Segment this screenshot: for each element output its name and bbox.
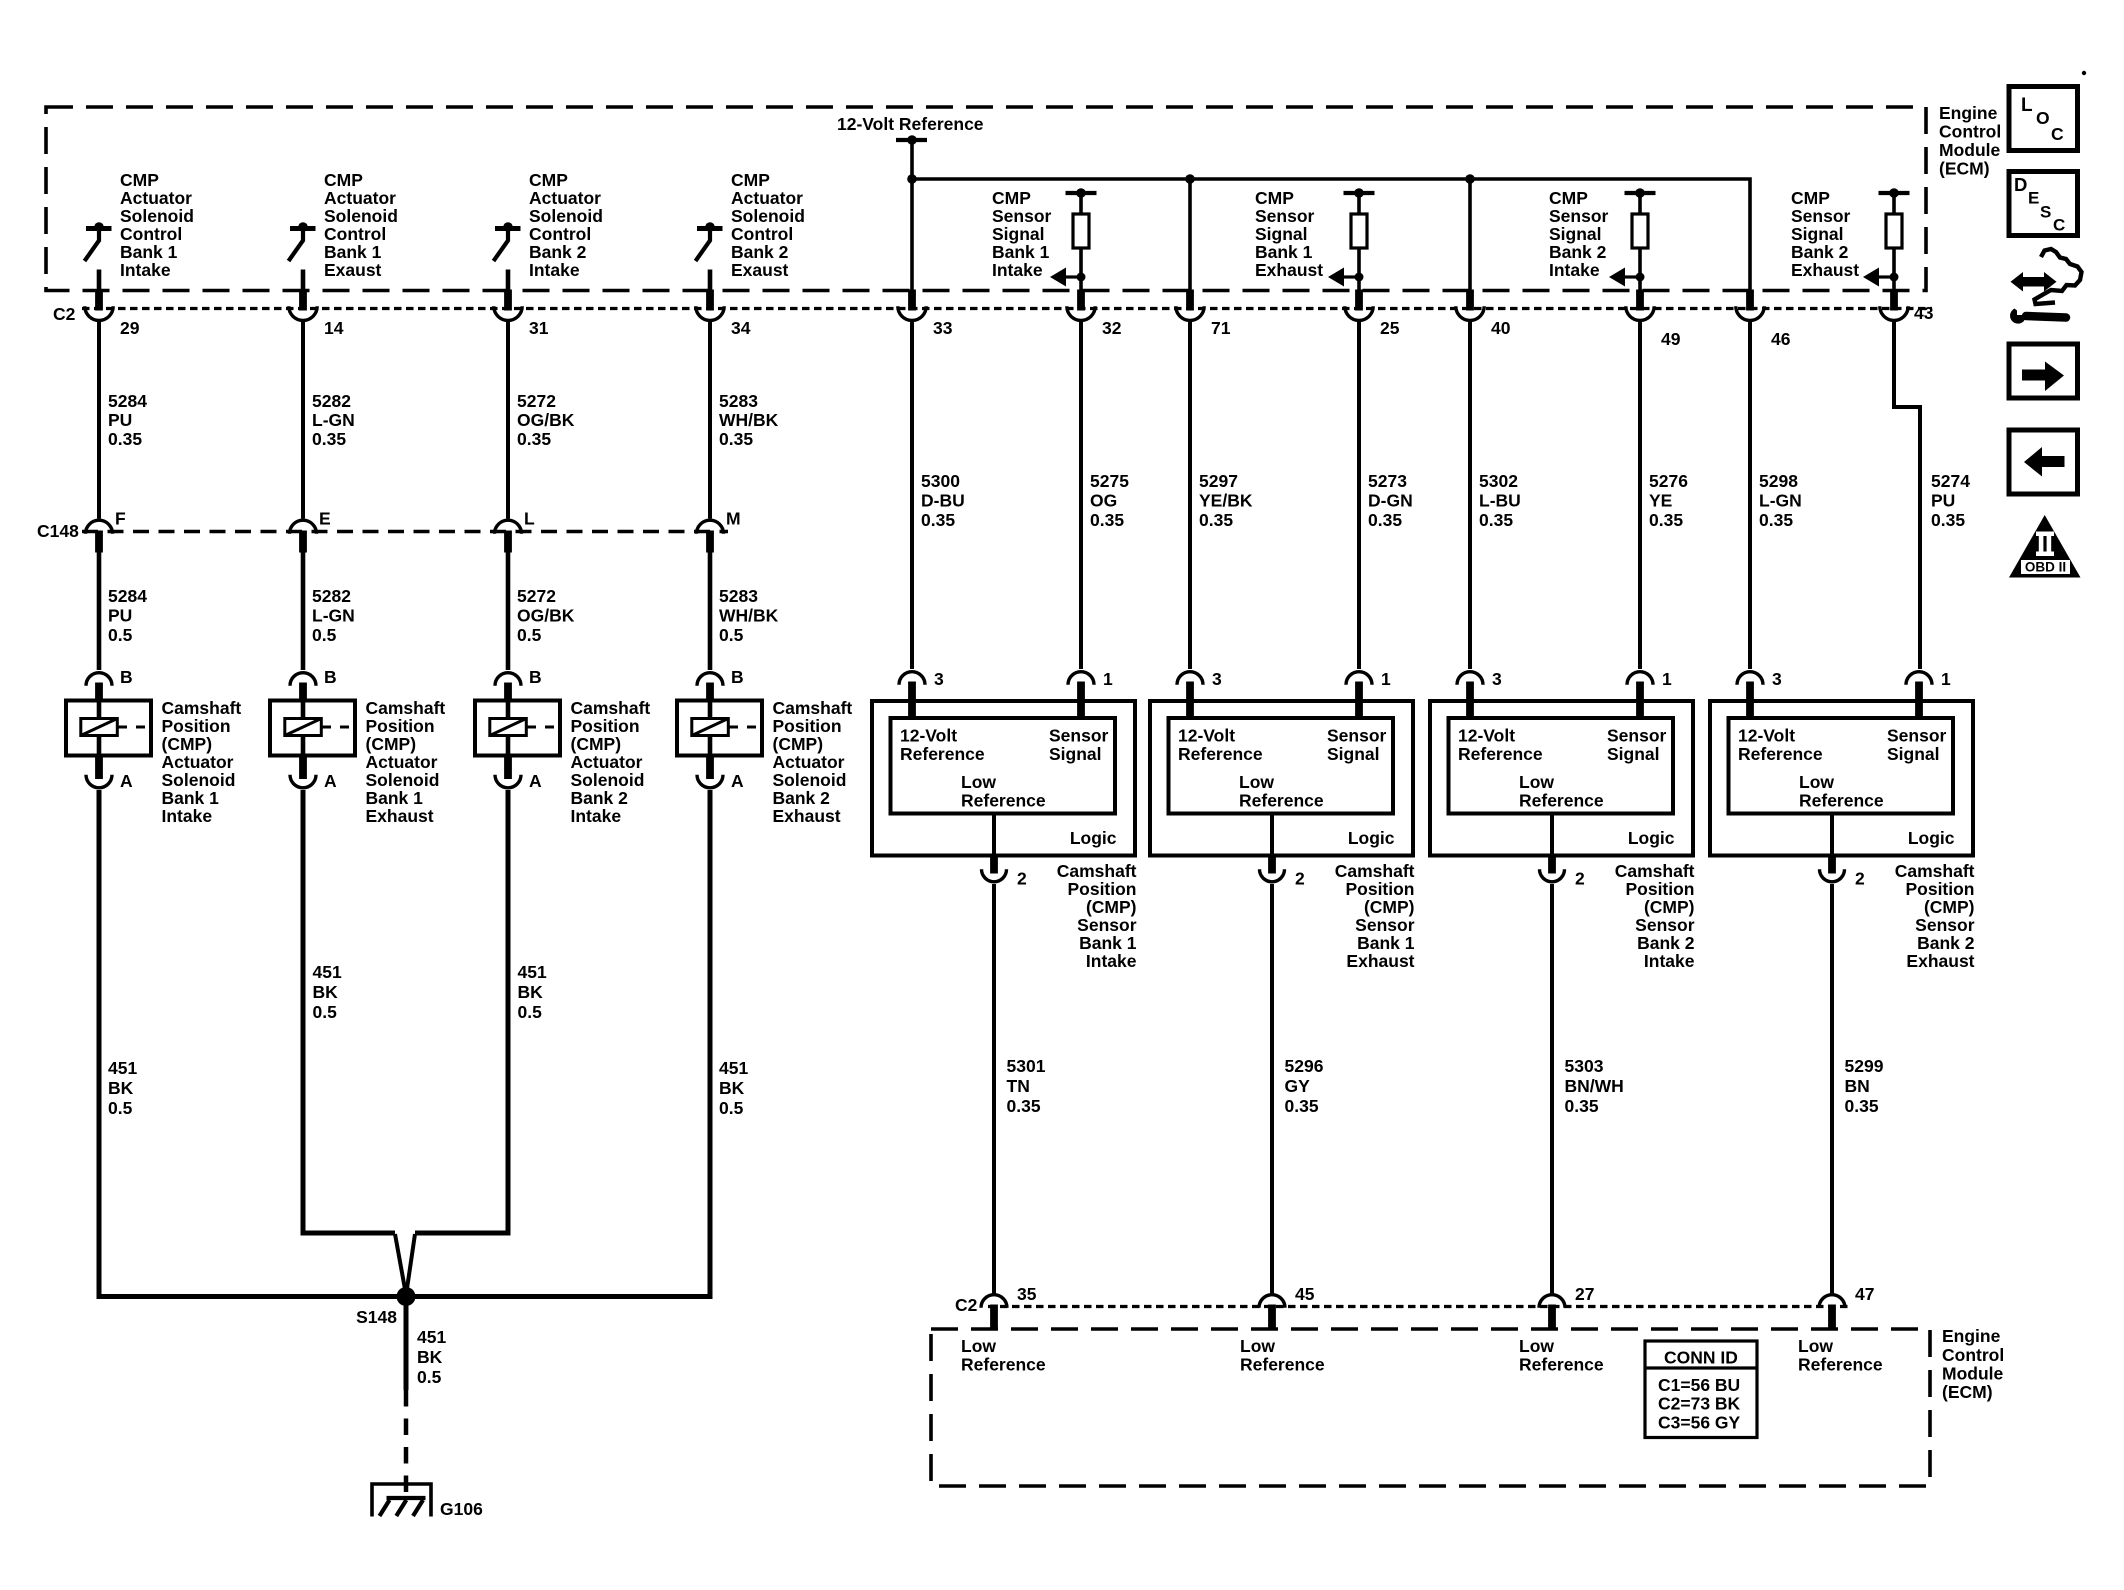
svg-text:1: 1	[1381, 669, 1391, 689]
svg-text:5272: 5272	[517, 586, 556, 606]
connector pin 3 sensor Bank 1 Exhaust	[1177, 669, 1222, 719]
connector C148 pin F	[86, 509, 127, 553]
connector pin 1 sensor Bank 2 Intake	[1627, 669, 1672, 719]
svg-text:Logic: Logic	[1628, 828, 1675, 848]
svg-text:A: A	[731, 771, 744, 791]
svg-text:33: 33	[933, 318, 953, 338]
svg-text:34: 34	[731, 318, 751, 338]
arrow sensor signal tap Bank 1 Exhaust	[1328, 268, 1364, 287]
svg-text:0.35: 0.35	[1285, 1096, 1319, 1116]
svg-text:CONN ID: CONN ID	[1664, 1348, 1738, 1368]
svg-text:2: 2	[1575, 869, 1585, 889]
svg-text:CMP: CMP	[731, 170, 770, 190]
label Engine Control Module (ECM) bottom right	[1942, 1326, 2004, 1402]
connector C2 pin 49	[1626, 290, 1681, 350]
svg-text:Actuator: Actuator	[324, 188, 396, 208]
resistor CMP sensor pull-up Bank 1 Intake	[1066, 188, 1097, 277]
svg-text:0.35: 0.35	[517, 429, 551, 449]
svg-text:0.35: 0.35	[719, 429, 753, 449]
wire 451 BK 0.5 from solenoid 4 pin A	[710, 790, 748, 1294]
svg-text:OG/BK: OG/BK	[517, 410, 575, 430]
arrow sensor signal tap Bank 2 Intake	[1609, 268, 1645, 287]
svg-text:Module: Module	[1939, 140, 2001, 160]
svg-text:5274: 5274	[1931, 471, 1970, 491]
svg-text:Low: Low	[1519, 1336, 1554, 1356]
svg-text:Control: Control	[324, 224, 386, 244]
wire 5301 TN 0.35 (sensor pin 2 to C2)	[994, 884, 1046, 1294]
ECM module outline (bottom)	[931, 1329, 1930, 1486]
svg-text:D-GN: D-GN	[1368, 491, 1413, 511]
connector pin A solenoid Bank 1 Intake	[86, 755, 133, 792]
solenoid driver CMP Actuator Solenoid Control Bank 2 Exaust	[696, 170, 805, 280]
node Low Reference	[1519, 1336, 1604, 1375]
svg-text:14: 14	[324, 318, 344, 338]
svg-text:BK: BK	[108, 1078, 134, 1098]
svg-text:Bank 1: Bank 1	[120, 242, 178, 262]
svg-text:5302: 5302	[1479, 471, 1518, 491]
label CMP Sensor Signal Bank 1 Intake	[992, 188, 1052, 280]
svg-text:5301: 5301	[1007, 1056, 1046, 1076]
sensor Camshaft Position (CMP) Sensor Bank 1 Intake	[872, 701, 1137, 971]
svg-text:5276: 5276	[1649, 471, 1688, 491]
svg-text:0.5: 0.5	[313, 1002, 338, 1022]
svg-text:Signal: Signal	[1607, 744, 1660, 764]
connector C148 line	[82, 530, 728, 533]
svg-text:YE/BK: YE/BK	[1199, 491, 1253, 511]
svg-text:BN/WH: BN/WH	[1565, 1076, 1624, 1096]
connector pin 2 sensor Bank 2 Intake	[1540, 854, 1586, 889]
connector pin B solenoid Bank 1 Intake	[86, 667, 133, 701]
connector pin 3 sensor Bank 2 Intake	[1457, 669, 1502, 719]
svg-text:0.5: 0.5	[417, 1367, 442, 1387]
wire driver output Bank 2 Intake to pin	[506, 270, 511, 291]
svg-text:0.5: 0.5	[312, 625, 337, 645]
svg-text:Bank 1: Bank 1	[162, 788, 220, 808]
svg-text:Logic: Logic	[1908, 828, 1955, 848]
svg-text:0.35: 0.35	[921, 510, 955, 530]
svg-text:Bank 2: Bank 2	[1637, 933, 1695, 953]
svg-text:Position: Position	[1905, 879, 1974, 899]
wire V-drop to splice	[395, 1234, 415, 1292]
svg-text:2: 2	[1017, 869, 1027, 889]
svg-text:Position: Position	[773, 716, 842, 736]
connector pin A solenoid Bank 2 Intake	[495, 755, 542, 792]
svg-text:5303: 5303	[1565, 1056, 1604, 1076]
wire 5284 PU 0.5 (C148 to solenoid pin B)	[99, 553, 147, 671]
svg-text:5284: 5284	[108, 586, 147, 606]
svg-text:Solenoid: Solenoid	[529, 206, 603, 226]
svg-text:CMP: CMP	[529, 170, 568, 190]
svg-text:YE: YE	[1649, 491, 1672, 511]
svg-text:71: 71	[1211, 318, 1231, 338]
svg-text:Position: Position	[571, 716, 640, 736]
svg-text:CMP: CMP	[120, 170, 159, 190]
wire ground run horizontal	[97, 1294, 713, 1299]
wire 5282 L-GN 0.35 (C2 pin 14 to C148)	[303, 322, 355, 519]
connector pin 2 sensor Bank 2 Exhaust	[1820, 854, 1866, 889]
svg-text:451: 451	[108, 1058, 137, 1078]
svg-text:BN: BN	[1845, 1076, 1870, 1096]
table CONN ID	[1645, 1341, 1757, 1438]
svg-text:Actuator: Actuator	[162, 752, 234, 772]
svg-text:CMP: CMP	[992, 188, 1031, 208]
svg-text:L-GN: L-GN	[1759, 491, 1802, 511]
svg-text:0.5: 0.5	[517, 625, 542, 645]
svg-text:5275: 5275	[1090, 471, 1129, 491]
svg-text:12-Volt: 12-Volt	[1178, 726, 1235, 746]
svg-text:29: 29	[120, 318, 140, 338]
svg-text:5273: 5273	[1368, 471, 1407, 491]
connector pin B solenoid Bank 1 Exhaust	[290, 667, 337, 701]
svg-text:GY: GY	[1285, 1076, 1311, 1096]
junction bus / pin 71 wire	[1185, 174, 1195, 184]
icon back arrow button	[2009, 430, 2078, 494]
svg-text:12-Volt Reference: 12-Volt Reference	[837, 114, 984, 134]
svg-text:Control: Control	[529, 224, 591, 244]
svg-text:45: 45	[1295, 1284, 1315, 1304]
svg-text:Reference: Reference	[1519, 791, 1604, 811]
svg-text:0.5: 0.5	[719, 1098, 744, 1118]
svg-text:Bank 1: Bank 1	[1079, 933, 1137, 953]
icon LOC button	[2009, 87, 2078, 151]
connector C2 (bottom) line	[988, 1305, 1850, 1308]
svg-text:12-Volt: 12-Volt	[1738, 726, 1795, 746]
svg-text:Signal: Signal	[992, 224, 1045, 244]
svg-text:E: E	[319, 509, 331, 529]
connector C148 pin E	[290, 509, 331, 553]
svg-text:0.35: 0.35	[1649, 510, 1683, 530]
svg-text:(CMP): (CMP)	[571, 734, 622, 754]
mark speck	[2082, 71, 2086, 75]
svg-text:46: 46	[1771, 329, 1791, 349]
svg-text:3: 3	[1212, 669, 1222, 689]
node 12-Volt Reference terminal	[837, 114, 984, 145]
connector C2 pin 32	[1067, 290, 1122, 339]
ground G106	[372, 1484, 483, 1519]
svg-text:Camshaft: Camshaft	[162, 698, 242, 718]
svg-text:0.5: 0.5	[108, 625, 133, 645]
svg-text:3: 3	[1492, 669, 1502, 689]
svg-text:1: 1	[1941, 669, 1951, 689]
svg-text:0.5: 0.5	[719, 625, 744, 645]
label CMP Sensor Signal Bank 1 Exhaust	[1255, 188, 1323, 280]
svg-text:Exhaust: Exhaust	[1255, 260, 1323, 280]
connector C2 pin 25	[1345, 290, 1400, 339]
wire 5273 D-GN 0.35	[1359, 322, 1413, 670]
svg-text:3: 3	[934, 669, 944, 689]
junction 12V bus at pin 33 column	[907, 174, 917, 184]
svg-text:O: O	[2036, 108, 2050, 128]
svg-text:OG: OG	[1090, 491, 1117, 511]
svg-text:A: A	[120, 771, 133, 791]
svg-text:Bank 2: Bank 2	[571, 788, 629, 808]
splice S148	[356, 1287, 415, 1327]
svg-text:Exhaust: Exhaust	[1346, 951, 1414, 971]
svg-text:0.35: 0.35	[312, 429, 346, 449]
svg-text:0.35: 0.35	[108, 429, 142, 449]
wire 5272 OG/BK 0.5 (C148 to solenoid pin B)	[508, 553, 575, 671]
wire 5274 PU 0.35 (pin 43 with jog)	[1894, 322, 1970, 670]
svg-text:5272: 5272	[517, 391, 556, 411]
wire resistor to pin stub Bank 2 Intake	[1638, 277, 1642, 291]
svg-text:5283: 5283	[719, 391, 758, 411]
ECM module outline (top)	[46, 107, 1926, 291]
label connector C2 (bottom)	[955, 1295, 978, 1315]
svg-text:Logic: Logic	[1070, 828, 1117, 848]
icon hand with double arrow and wrench	[2010, 249, 2081, 324]
svg-text:D-BU: D-BU	[921, 491, 965, 511]
svg-text:Exaust: Exaust	[731, 260, 789, 280]
svg-text:L-GN: L-GN	[312, 410, 355, 430]
svg-text:B: B	[120, 667, 133, 687]
connector C2 pin 33	[898, 290, 953, 339]
svg-text:Actuator: Actuator	[366, 752, 438, 772]
resistor CMP sensor pull-up Bank 2 Intake	[1625, 188, 1656, 277]
svg-text:27: 27	[1575, 1284, 1594, 1304]
icon DESC button	[2009, 172, 2078, 236]
arrow sensor signal tap Bank 2 Exhaust	[1863, 268, 1899, 287]
connector pin 3 sensor Bank 2 Exhaust	[1737, 669, 1782, 719]
svg-text:Reference: Reference	[1519, 1355, 1604, 1375]
svg-text:(CMP): (CMP)	[1644, 897, 1695, 917]
svg-text:Low: Low	[1239, 772, 1274, 792]
svg-text:Sensor: Sensor	[1549, 206, 1609, 226]
wire 5276 YE 0.35	[1640, 322, 1688, 670]
connector pin A solenoid Bank 1 Exhaust	[290, 755, 337, 792]
connector pin 1 sensor Bank 1 Intake	[1068, 669, 1113, 719]
connector pin 2 sensor Bank 1 Intake	[982, 854, 1028, 889]
connector C148 pin L	[495, 509, 536, 553]
svg-text:47: 47	[1855, 1284, 1874, 1304]
svg-text:5282: 5282	[312, 391, 351, 411]
svg-text:451: 451	[417, 1327, 446, 1347]
svg-text:Solenoid: Solenoid	[773, 770, 847, 790]
svg-text:Bank 1: Bank 1	[1357, 933, 1415, 953]
svg-text:1: 1	[1662, 669, 1672, 689]
svg-text:Bank 2: Bank 2	[1791, 242, 1849, 262]
svg-text:(CMP): (CMP)	[1364, 897, 1415, 917]
svg-text:Position: Position	[1345, 879, 1414, 899]
svg-text:CMP: CMP	[1549, 188, 1588, 208]
wire driver output Bank 1 Intake to pin	[97, 270, 102, 291]
svg-text:32: 32	[1102, 318, 1122, 338]
svg-text:35: 35	[1017, 1284, 1037, 1304]
svg-text:Actuator: Actuator	[731, 188, 803, 208]
svg-text:BK: BK	[719, 1078, 745, 1098]
connector pin 1 sensor Bank 1 Exhaust	[1346, 669, 1391, 719]
svg-text:Sensor: Sensor	[992, 206, 1052, 226]
svg-text:Bank 1: Bank 1	[324, 242, 382, 262]
svg-text:Camshaft: Camshaft	[366, 698, 446, 718]
svg-text:Bank 2: Bank 2	[1917, 933, 1975, 953]
svg-text:Low: Low	[1798, 1336, 1833, 1356]
svg-text:Actuator: Actuator	[571, 752, 643, 772]
svg-text:(ECM): (ECM)	[1939, 159, 1990, 179]
wire 451 BK 0.5 from solenoid 2 pin A	[303, 790, 342, 1236]
svg-text:PU: PU	[108, 606, 132, 626]
svg-text:PU: PU	[1931, 491, 1955, 511]
svg-text:43: 43	[1914, 303, 1934, 323]
connector C2 pin 34	[696, 290, 751, 339]
svg-text:Control: Control	[1942, 1345, 2004, 1365]
resistor CMP sensor pull-up Bank 1 Exhaust	[1344, 188, 1375, 277]
svg-text:Exhaust: Exhaust	[1906, 951, 1974, 971]
wire junction bar solenoids 2+3	[301, 1231, 511, 1236]
svg-text:S: S	[2040, 203, 2051, 222]
svg-text:Signal: Signal	[1549, 224, 1602, 244]
wire 5303 BN/WH 0.35 (sensor pin 2 to C2)	[1552, 884, 1624, 1294]
svg-text:0.5: 0.5	[518, 1002, 543, 1022]
svg-text:OBD II: OBD II	[2025, 560, 2066, 575]
sensor Camshaft Position (CMP) Sensor Bank 1 Exhaust	[1150, 701, 1415, 971]
svg-text:Reference: Reference	[961, 1355, 1046, 1375]
wire 12-volt reference bus	[912, 179, 1750, 291]
svg-text:Sensor: Sensor	[1887, 726, 1947, 746]
svg-text:Bank 2: Bank 2	[731, 242, 789, 262]
svg-text:WH/BK: WH/BK	[719, 410, 779, 430]
svg-text:Bank 2: Bank 2	[529, 242, 587, 262]
svg-text:Low: Low	[961, 772, 996, 792]
svg-text:D: D	[2014, 174, 2027, 195]
svg-text:Camshaft: Camshaft	[1335, 861, 1415, 881]
svg-text:Signal: Signal	[1255, 224, 1308, 244]
svg-text:(CMP): (CMP)	[162, 734, 213, 754]
solenoid Camshaft Position (CMP) Actuator Solenoid Bank 2 Exhaust	[677, 698, 852, 826]
svg-text:Intake: Intake	[1644, 951, 1695, 971]
svg-text:BK: BK	[417, 1347, 443, 1367]
svg-text:Solenoid: Solenoid	[571, 770, 645, 790]
svg-text:Control: Control	[120, 224, 182, 244]
svg-text:3: 3	[1772, 669, 1782, 689]
svg-text:(CMP): (CMP)	[366, 734, 417, 754]
svg-text:Low: Low	[1519, 772, 1554, 792]
svg-text:Reference: Reference	[1798, 1355, 1883, 1375]
svg-text:Reference: Reference	[1178, 744, 1263, 764]
svg-text:C148: C148	[37, 521, 79, 541]
svg-text:Reference: Reference	[900, 744, 985, 764]
svg-text:0.35: 0.35	[1007, 1096, 1041, 1116]
svg-text:PU: PU	[108, 410, 132, 430]
svg-text:Camshaft: Camshaft	[571, 698, 651, 718]
node Low Reference	[961, 1336, 1046, 1375]
svg-text:5298: 5298	[1759, 471, 1798, 491]
connector pin A solenoid Bank 2 Exhaust	[697, 755, 744, 792]
svg-text:0.35: 0.35	[1479, 510, 1513, 530]
svg-text:Exhaust: Exhaust	[366, 806, 434, 826]
svg-text:5283: 5283	[719, 586, 758, 606]
svg-text:Camshaft: Camshaft	[1057, 861, 1137, 881]
svg-text:0.5: 0.5	[108, 1098, 133, 1118]
svg-text:Signal: Signal	[1049, 744, 1102, 764]
svg-text:A: A	[324, 771, 337, 791]
svg-text:CMP: CMP	[1255, 188, 1294, 208]
connector pin 1 sensor Bank 2 Exhaust	[1906, 669, 1951, 719]
svg-text:12-Volt: 12-Volt	[1458, 726, 1515, 746]
svg-text:F: F	[115, 509, 126, 529]
svg-text:Intake: Intake	[120, 260, 171, 280]
svg-text:0.35: 0.35	[1368, 510, 1402, 530]
connector C2 pin 47	[1819, 1284, 1874, 1330]
solenoid Camshaft Position (CMP) Actuator Solenoid Bank 2 Intake	[475, 698, 650, 826]
svg-text:Engine: Engine	[1939, 103, 1998, 123]
svg-text:B: B	[529, 667, 542, 687]
svg-text:Sensor: Sensor	[1791, 206, 1851, 226]
svg-text:BK: BK	[313, 982, 339, 1002]
wire 5297 YE/BK 0.35	[1190, 322, 1253, 670]
wire 5275 OG 0.35	[1081, 322, 1129, 670]
wire resistor to pin stub Bank 2 Exhaust	[1892, 277, 1896, 291]
svg-text:0.35: 0.35	[1931, 510, 1965, 530]
svg-text:C3=56 GY: C3=56 GY	[1658, 1413, 1741, 1433]
svg-text:Bank 1: Bank 1	[992, 242, 1050, 262]
svg-text:Bank 2: Bank 2	[773, 788, 831, 808]
connector C2 (top) line	[82, 307, 1932, 310]
svg-text:Exaust: Exaust	[324, 260, 382, 280]
svg-text:L: L	[524, 509, 535, 529]
sensor Camshaft Position (CMP) Sensor Bank 2 Intake	[1430, 701, 1695, 971]
svg-text:Exhaust: Exhaust	[1791, 260, 1859, 280]
svg-text:C2: C2	[53, 304, 76, 324]
svg-text:G106: G106	[440, 1499, 483, 1519]
wire 5282 L-GN 0.5 (C148 to solenoid pin B)	[303, 553, 355, 671]
svg-text:5282: 5282	[312, 586, 351, 606]
svg-text:C1=56 BU: C1=56 BU	[1658, 1375, 1740, 1395]
svg-text:Bank 1: Bank 1	[366, 788, 424, 808]
svg-text:BK: BK	[518, 982, 544, 1002]
svg-text:(CMP): (CMP)	[1086, 897, 1137, 917]
wire 5298 L-GN 0.35	[1750, 322, 1802, 670]
svg-text:Logic: Logic	[1348, 828, 1395, 848]
svg-text:Intake: Intake	[992, 260, 1043, 280]
connector pin B solenoid Bank 2 Exhaust	[697, 667, 744, 701]
svg-text:0.35: 0.35	[1845, 1096, 1879, 1116]
svg-text:C: C	[2053, 216, 2065, 235]
svg-text:5296: 5296	[1285, 1056, 1324, 1076]
svg-text:Sensor: Sensor	[1915, 915, 1975, 935]
svg-text:0.35: 0.35	[1199, 510, 1233, 530]
svg-text:Signal: Signal	[1887, 744, 1940, 764]
svg-text:5297: 5297	[1199, 471, 1238, 491]
wire 451 BK 0.5 from solenoid 1 pin A	[99, 790, 137, 1294]
wire 5283 WH/BK 0.5 (C148 to solenoid pin B)	[710, 553, 779, 671]
connector C2 pin 71	[1176, 290, 1231, 339]
svg-text:L: L	[2021, 95, 2033, 116]
wire 451 BK 0.5 from solenoid 3 pin A	[508, 790, 547, 1236]
svg-text:Reference: Reference	[1799, 791, 1884, 811]
svg-text:Intake: Intake	[1086, 951, 1137, 971]
svg-text:Reference: Reference	[1240, 1355, 1325, 1375]
connector C148 pin M	[697, 509, 741, 553]
svg-text:Actuator: Actuator	[773, 752, 845, 772]
svg-text:Solenoid: Solenoid	[324, 206, 398, 226]
svg-text:Actuator: Actuator	[529, 188, 601, 208]
wire 5283 WH/BK 0.35 (C2 pin 34 to C148)	[710, 322, 779, 519]
wire 5296 GY 0.35 (sensor pin 2 to C2)	[1272, 884, 1324, 1294]
connector pin 2 sensor Bank 1 Exhaust	[1260, 854, 1306, 889]
wire 12-volt reference vertical (pin 33 feed)	[910, 140, 914, 291]
svg-text:A: A	[529, 771, 542, 791]
svg-text:Sensor: Sensor	[1355, 915, 1415, 935]
svg-text:C: C	[2051, 124, 2064, 144]
svg-text:49: 49	[1661, 329, 1681, 349]
svg-text:451: 451	[518, 962, 547, 982]
wire bus drop to pin 71	[1188, 179, 1192, 291]
svg-text:Sensor: Sensor	[1327, 726, 1387, 746]
connector C2 pin 29	[85, 290, 140, 339]
svg-text:Intake: Intake	[571, 806, 622, 826]
svg-text:Actuator: Actuator	[120, 188, 192, 208]
label Engine Control Module (ECM) top right	[1939, 103, 2001, 179]
